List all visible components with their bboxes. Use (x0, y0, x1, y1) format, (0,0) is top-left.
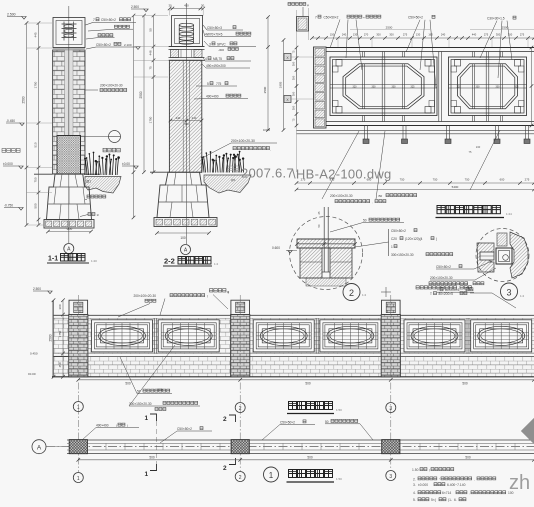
svg-text:-0.750: -0.750 (4, 204, 13, 208)
elevation title (289, 402, 297, 410)
svg-text:1750: 1750 (34, 81, 38, 88)
svg-text:6.: 6. (454, 498, 457, 502)
svg-text:2.500: 2.500 (7, 13, 16, 17)
grid bubble A under section 2-2 (181, 245, 191, 255)
elevation left dimension chain (62, 300, 64, 377)
ground line right of section 1-1 (85, 173, 100, 175)
svg-text:C50×50×2: C50×50×2 (324, 16, 339, 20)
detail lattice unit 1 (330, 57, 437, 116)
elevation bay 2 panel 2 (320, 320, 381, 352)
svg-text:275: 275 (525, 178, 530, 182)
planting right of section 2-2 (201, 160, 204, 173)
svg-text:C50×50×2: C50×50×2 (436, 265, 451, 269)
svg-text:300: 300 (392, 86, 397, 89)
svg-text:): ) (436, 237, 437, 241)
detail 2 center pipe (323, 207, 325, 272)
svg-text:1905: 1905 (279, 81, 283, 88)
svg-text:1:50: 1:50 (336, 408, 342, 412)
svg-text:2-2: 2-2 (164, 257, 175, 266)
elevation bay 1 panel 1 (92, 320, 153, 352)
svg-text:C50×50×2: C50×50×2 (391, 229, 406, 233)
soil hatch right of section 2-2 (204, 175, 251, 193)
svg-text:500: 500 (465, 455, 471, 459)
elevation top rail (88, 314, 231, 316)
svg-text:1: 1 (145, 415, 149, 422)
section 2-2 base width dimension (157, 232, 209, 234)
right ground label near plants (103, 148, 107, 152)
svg-text:2: 2 (239, 475, 242, 481)
svg-text:300: 300 (476, 86, 481, 89)
detail panel total dimension 5400 (297, 189, 534, 191)
detail panel left pier strip (314, 47, 327, 128)
svg-text:C50×50×2: C50×50×2 (177, 427, 192, 431)
svg-text:300: 300 (292, 105, 296, 110)
detail panel right edge dimension chain (531, 48, 533, 126)
top annotation leaders group 1 (330, 20, 340, 49)
elevation bottom dimension (78, 379, 534, 381)
svg-text:2500: 2500 (502, 26, 509, 30)
svg-text:75: 75 (149, 66, 153, 70)
svg-text:200×100×20-30: 200×100×20-30 (231, 139, 255, 143)
elevation top annotation leaders (118, 304, 150, 318)
extension lines to section 1-1 (27, 22, 53, 24)
svg-text:2500: 2500 (139, 91, 143, 98)
svg-text:500: 500 (149, 455, 155, 459)
svg-text:1: 1 (77, 476, 80, 482)
section 2-2 left dimension chains (153, 16, 155, 173)
svg-text:750: 750 (34, 177, 38, 182)
section 1-1 cap (53, 18, 85, 48)
svg-text:490×490×200: 490×490×200 (206, 64, 226, 68)
svg-text:1:24: 1:24 (506, 212, 512, 216)
svg-text:2500: 2500 (22, 96, 26, 103)
detail panel hanger posts (364, 126, 366, 140)
section 2-2 cap spool symbol (179, 23, 193, 26)
section 1-1 left outer dimension chain (26, 23, 28, 225)
svg-text:240: 240 (476, 145, 481, 149)
svg-text:600: 600 (500, 178, 505, 182)
section 2-2 top width dimension 30 450 30 (170, 8, 204, 10)
svg-text:2: 2 (223, 465, 227, 472)
svg-text:): ) (127, 424, 128, 428)
svg-text:1: 1 (145, 471, 149, 478)
svg-text:240: 240 (441, 33, 446, 37)
elevation ground line (52, 376, 534, 378)
svg-text:300: 300 (292, 75, 296, 80)
svg-text:275: 275 (484, 33, 489, 37)
svg-text:240: 240 (342, 33, 347, 37)
svg-text:500: 500 (125, 382, 131, 386)
section 2-2 foundation stones (157, 172, 209, 217)
gray diamond logo at right edge (521, 417, 534, 445)
detail panel left extension lines (296, 10, 298, 172)
elevation left wall stub (53, 314, 69, 316)
svg-text:M8,75: M8,75 (213, 57, 222, 61)
svg-text:775: 775 (216, 82, 222, 86)
leader base annotation (88, 213, 91, 216)
svg-text:3.: 3. (413, 483, 416, 487)
elevation right top annotation mortar (416, 286, 419, 289)
elevation grid bubble 1 (73, 402, 83, 412)
svg-text:2500: 2500 (386, 26, 393, 30)
plan grid bubble 3 (386, 471, 396, 481)
detail 2 right block (330, 248, 352, 278)
svg-text:1/: 1/ (97, 213, 100, 217)
plan wall joint ticks (105, 443, 107, 450)
detail 2 bottom filler (306, 278, 346, 286)
svg-text:320: 320 (353, 86, 358, 89)
plan dimension line (78, 459, 534, 461)
detail panel left dimension chain (283, 40, 285, 130)
svg-text:±0.000: ±0.000 (3, 162, 13, 166)
detail 2 right annotation bracket (388, 229, 390, 256)
svg-text:±0.00: ±0.00 (122, 162, 130, 166)
svg-text:\HB-A2-100.dwg: \HB-A2-100.dwg (292, 167, 392, 182)
section 1-1 shaft core strip (65, 50, 74, 174)
svg-text:zh: zh (509, 472, 530, 494)
svg-text:200×100×20-30: 200×100×20-30 (330, 194, 353, 198)
svg-text:490×490: 490×490 (206, 95, 219, 99)
svg-text:2.: 2. (413, 477, 416, 481)
svg-text:1: 1 (269, 471, 274, 480)
svg-text:300: 300 (389, 33, 394, 37)
elevation grid bubble 2 (235, 403, 245, 413)
svg-text:600: 600 (67, 227, 73, 231)
svg-text:3: 3 (209, 42, 211, 46)
svg-text:A: A (37, 445, 42, 452)
elevation pier 3 cap (382, 300, 401, 314)
plan grid bubble 1 (73, 473, 83, 483)
detail 3 annotation mortar joint (429, 282, 432, 285)
svg-text:200×100×20-30: 200×100×20-30 (430, 276, 453, 280)
section 2-2 cap (172, 16, 203, 47)
svg-text:448: 448 (149, 50, 153, 55)
svg-text:750: 750 (400, 178, 405, 182)
elevation bay 3 panel 2 (471, 320, 532, 352)
detail lattice unit 2 (cut at right edge) (449, 57, 527, 116)
svg-text:1:2: 1:2 (214, 262, 219, 266)
cad watermark text (228, 166, 233, 171)
detail panel top dimension chain (312, 37, 534, 39)
svg-text:4W70×70×5: 4W70×70×5 (205, 33, 223, 37)
svg-text:300: 300 (508, 33, 513, 37)
section 1-1 inner hatched wall block (57, 136, 81, 175)
grid line axis 2 (239, 295, 241, 472)
svg-text:275: 275 (520, 33, 525, 37)
svg-text:440: 440 (472, 33, 477, 37)
svg-text:200×100×20-30: 200×100×20-30 (134, 294, 157, 298)
svg-text:1-1: 1-1 (48, 256, 58, 263)
svg-text:C50×50×2: C50×50×2 (280, 420, 295, 424)
svg-text:300: 300 (292, 91, 296, 96)
svg-text:C30×30×1.5: C30×30×1.5 (487, 17, 505, 21)
svg-text:±0.000: ±0.000 (418, 483, 428, 487)
svg-text:500: 500 (34, 203, 38, 208)
svg-text:2.500: 2.500 (33, 287, 41, 291)
top annotation leaders group 2 (406, 20, 420, 52)
svg-text:450: 450 (58, 362, 62, 367)
plan wall strip inner lines (67, 442, 534, 444)
svg-text:300×150×20-30: 300×150×20-30 (129, 402, 152, 406)
section 2-2 base pad (154, 218, 217, 227)
detail panel lower edge lines (297, 130, 534, 132)
plan grid bubble 2 (235, 472, 245, 482)
section cut line 1 (156, 421, 158, 464)
svg-text:30: 30 (168, 4, 172, 8)
svg-text:(: ( (116, 424, 117, 428)
plan pier 1 (69, 440, 87, 454)
plan wall strip outer lines (67, 439, 534, 441)
plan wall centerline (46, 446, 534, 448)
svg-text:×: × (363, 16, 365, 20)
svg-text:0.450: 0.450 (30, 352, 38, 356)
elevation bay 2 mullion (315, 318, 317, 353)
svg-text:2.100: 2.100 (124, 43, 132, 47)
grid line axis 3 (390, 295, 392, 471)
plan pier 2 (231, 440, 249, 454)
svg-text:2500: 2500 (49, 334, 53, 341)
grid line axis 1 (77, 295, 79, 473)
detail 3 left hatched wall (477, 243, 494, 272)
detail lattice divider (438, 52, 440, 122)
svg-text:100: 100 (180, 236, 186, 240)
svg-text:7: 7 (315, 16, 317, 20)
top annotation leaders group 3 (480, 21, 497, 58)
svg-text:6×714: 6×714 (442, 491, 451, 495)
svg-text:C50×50×2: C50×50×2 (101, 18, 116, 22)
elevation bay 3 panel 1 (404, 320, 465, 352)
detail panel coping cap section at left (297, 17, 309, 32)
top dim extension lines (337, 38, 339, 48)
svg-text:C20: C20 (391, 237, 397, 241)
svg-text:2.500: 2.500 (131, 5, 139, 9)
svg-text:490: 490 (184, 122, 189, 126)
svg-text:SPVC: SPVC (217, 42, 226, 46)
section 1-1 base pad with hatched blocks (44, 220, 94, 229)
soil hatch right of section 1-1 (85, 177, 121, 194)
svg-text:0.620: 0.620 (263, 128, 270, 132)
svg-text:320: 320 (457, 86, 462, 89)
svg-text:2: 2 (349, 288, 354, 298)
svg-text:50: 50 (363, 219, 367, 223)
svg-text:300: 300 (376, 33, 381, 37)
section 1-1 foundation stones (47, 174, 92, 219)
svg-text:7: 7 (93, 18, 95, 22)
svg-text:510: 510 (34, 142, 38, 147)
svg-text:6.400~7.140: 6.400~7.140 (447, 483, 466, 487)
detail 2 left block (300, 248, 322, 278)
svg-text:130: 130 (353, 33, 358, 37)
ground line left of section 2-2 (150, 171, 169, 173)
svg-text:±0.00: ±0.00 (28, 372, 36, 376)
svg-text:50: 50 (325, 420, 329, 424)
ground line left of section 1-1 (34, 173, 53, 175)
leader anchor annotation (98, 34, 101, 37)
register cross mark (381, 291, 391, 293)
svg-text:C50×50×2: C50×50×2 (96, 43, 111, 47)
bottom annotation long leaders (322, 131, 359, 199)
svg-text:750: 750 (433, 178, 438, 182)
svg-text:C50×50×2: C50×50×2 (408, 16, 423, 20)
svg-text:5.: 5. (413, 498, 416, 502)
elevation bay 2 panel 1 (253, 320, 314, 352)
svg-text:(: ( (207, 294, 208, 298)
title wall partial detail (437, 206, 445, 214)
svg-text:1:2: 1:2 (362, 293, 367, 297)
svg-text:500: 500 (305, 382, 311, 386)
svg-text:160: 160 (428, 33, 433, 37)
section 2-2 bearing band (169, 46, 205, 48)
svg-text:1:50: 1:50 (336, 477, 342, 481)
plan title (289, 470, 297, 478)
svg-text:3: 3 (389, 406, 392, 412)
svg-text:200×100×20-30: 200×100×20-30 (100, 84, 123, 88)
plan title bubble (264, 467, 279, 482)
elevation pier 3 shaft (381, 315, 400, 377)
svg-text:300: 300 (292, 61, 296, 66)
svg-text:1: 1 (391, 245, 393, 249)
svg-text:500: 500 (462, 382, 468, 386)
left chain tag squares (284, 54, 291, 61)
leader embedded plate annotation (115, 25, 118, 28)
elevation top annotation embedded part (210, 289, 213, 292)
svg-text:300×150×20-30: 300×150×20-30 (391, 253, 414, 257)
svg-text:300: 300 (58, 304, 62, 309)
svg-text:4: 4 (205, 57, 207, 61)
section 1-1 centerline (68, 6, 70, 243)
svg-text:2007.6.7: 2007.6.7 (241, 166, 294, 181)
svg-text:": " (439, 477, 440, 481)
svg-text:φ: φ (307, 3, 309, 7)
svg-text:-300: -300 (218, 48, 224, 52)
elevation bay 1 mullion (154, 318, 156, 353)
detail 3 right hatched wall (510, 232, 528, 278)
svg-text:1:2: 1:2 (520, 294, 525, 298)
svg-text:T: T (430, 292, 432, 296)
section 2-2 band end anchor blocks (171, 50, 179, 58)
svg-text:(120×120)(4: (120×120)(4 (405, 237, 423, 241)
detail panel bottom dimension chain (297, 182, 534, 184)
svg-text:@1: @1 (231, 178, 236, 182)
section 1-1 left inner dimension chain (38, 23, 40, 225)
svg-text:325: 325 (411, 86, 416, 89)
svg-text:240: 240 (192, 116, 197, 120)
svg-text:2: 2 (223, 416, 227, 423)
detail circle 3 dashed boundary (476, 229, 529, 282)
detail 3 upper strip (497, 233, 507, 246)
elevation grid bubble 3 (386, 403, 396, 413)
svg-text:1: 1 (77, 405, 80, 411)
svg-text:450: 450 (184, 4, 189, 8)
detail 2 block joints (300, 261, 322, 263)
svg-text:50: 50 (149, 28, 153, 32)
svg-text:1750: 1750 (58, 330, 62, 337)
svg-text:445: 445 (34, 32, 38, 37)
svg-text:3: 3 (506, 288, 511, 298)
svg-text:750: 750 (465, 178, 470, 182)
detail 2 coping stone hatched (297, 239, 355, 248)
neighbor ground label left (2, 149, 6, 153)
svg-text:3: 3 (389, 474, 392, 480)
detail 2 label bubble (343, 284, 360, 301)
plan pier 3 (382, 440, 400, 454)
svg-text:300: 300 (496, 33, 501, 37)
svg-text:130: 130 (416, 33, 421, 37)
svg-text:1:20: 1:20 (91, 259, 97, 263)
svg-text:300: 300 (372, 86, 377, 89)
svg-text:1750: 1750 (149, 116, 153, 123)
detail 3 tube box (496, 248, 512, 264)
detail bubble marker right of section 1-1 (109, 131, 121, 143)
svg-text:\50: \50 (378, 194, 383, 198)
planting right of section 1-1 (84, 161, 87, 175)
detail 3 label bubble (501, 283, 518, 300)
svg-text:80×200×5: 80×200×5 (439, 292, 454, 296)
svg-text:490×490: 490×490 (96, 424, 109, 428)
svg-text:0.600: 0.600 (272, 246, 280, 250)
svg-text:150: 150 (330, 33, 335, 37)
svg-text:2: 2 (239, 406, 242, 412)
elevation pier 2 shaft (231, 315, 250, 377)
elevation panel zone brick margins (88, 318, 231, 353)
section 2-2 hatched concrete shaft (169, 60, 201, 172)
elevation pier 2 cap (231, 300, 250, 314)
svg-text:5400: 5400 (452, 185, 459, 189)
svg-text:275: 275 (403, 33, 408, 37)
svg-text:1.50: 1.50 (412, 468, 419, 472)
elevation pier 1 shaft (69, 315, 88, 377)
svg-text:@1: @1 (86, 180, 91, 184)
section 1-1 width dimension 600 (48, 231, 91, 233)
svg-text:2500: 2500 (263, 86, 267, 93)
svg-text:500: 500 (307, 455, 313, 459)
elevation pier 1 cap (69, 300, 88, 314)
detail panel bottom rail (326, 121, 534, 123)
detail 2 pipe dimension ticks (297, 243, 355, 245)
elevation bay 1 panel 2 (158, 320, 219, 352)
svg-text:325: 325 (515, 86, 520, 89)
svg-text:270: 270 (364, 33, 369, 37)
coping cap leader annotation (288, 3, 291, 6)
grid bubble A under section 1-1 (64, 244, 74, 254)
svg-text:)1-: )1- (448, 498, 452, 502)
svg-text:-0.450: -0.450 (6, 119, 15, 123)
dimension chain between section 2-2 and detail panel (267, 17, 269, 130)
detail 3 t-plate (480, 252, 494, 260)
section 2-2 embedded pipe lines (182, 60, 184, 172)
svg-text:4.: 4. (413, 491, 416, 495)
detail circle 2 dashed boundary (290, 217, 363, 290)
svg-text:30: 30 (201, 4, 205, 8)
section 1-1 cap anchor ladder (62, 23, 77, 25)
svg-text:(: ( (429, 468, 430, 472)
svg-text:300: 300 (496, 86, 501, 89)
detail panel top rail (326, 47, 534, 49)
section 1-1 brick shaft (53, 50, 85, 174)
elevation brick wall band (53, 356, 69, 376)
leader rubble annotation foundation (87, 195, 90, 198)
elevation bay 3 mullion (466, 318, 468, 353)
svg-text:240: 240 (176, 116, 181, 120)
svg-text:5: 5 (207, 82, 209, 86)
section 2-2 centerline (185, 3, 187, 244)
svg-text:C50×50×3: C50×50×3 (207, 26, 222, 30)
elevation bottom rail (88, 352, 231, 354)
plan grid bubble A (32, 440, 46, 454)
